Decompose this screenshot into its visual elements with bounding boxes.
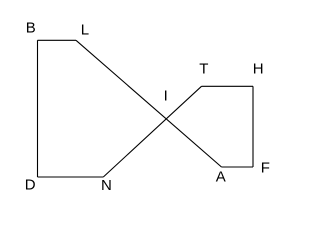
wire segment A-F (bottom-right horizontal) (222, 166, 254, 168)
wire segment H-T (top-right horizontal) (202, 85, 254, 87)
wire segment B-L (top-left horizontal) (38, 39, 77, 41)
svg-text:H: H (253, 61, 264, 78)
svg-text:D: D (25, 177, 36, 194)
svg-text:B: B (26, 20, 36, 37)
svg-text:I: I (164, 87, 168, 104)
svg-text:F: F (261, 160, 270, 177)
wire segment F-H (right vertical) (252, 86, 254, 167)
wire segment D-B (left vertical) (37, 40, 39, 177)
svg-text:N: N (101, 177, 112, 194)
wire segment N-D (bottom-left horizontal) (38, 176, 104, 178)
wire segment L-A (long diagonal through I) (76, 40, 222, 167)
svg-text:A: A (216, 169, 226, 186)
wire segment T-N (diagonal through I) (103, 86, 201, 177)
svg-text:L: L (81, 22, 89, 39)
svg-text:T: T (199, 61, 208, 78)
